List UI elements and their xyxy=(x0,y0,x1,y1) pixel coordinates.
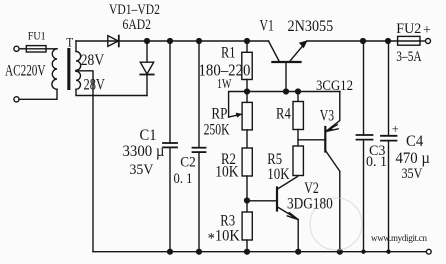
top rail right segment xyxy=(307,40,398,42)
resistor R5 xyxy=(293,146,303,176)
svg-text:FU2: FU2 xyxy=(396,21,421,38)
junction dot V3 collector bottom xyxy=(337,249,343,255)
svg-text:0. 1: 0. 1 xyxy=(174,171,193,187)
base bus wire xyxy=(247,91,340,93)
svg-text:V1: V1 xyxy=(260,17,274,34)
transistor V2 xyxy=(276,188,278,211)
junction dot C3 top xyxy=(360,38,366,44)
fuse FU1 xyxy=(26,46,46,52)
junction dot C4 top xyxy=(385,38,391,44)
svg-text:2N3055: 2N3055 xyxy=(288,19,334,36)
terminal AC input bottom xyxy=(14,97,19,102)
top rail left segment xyxy=(76,40,269,42)
junction dot VD2 top xyxy=(144,38,150,44)
svg-text:+: + xyxy=(423,23,431,38)
bottom rail xyxy=(93,251,426,253)
junction dot C1 top xyxy=(167,38,173,44)
svg-text:28V: 28V xyxy=(84,76,105,94)
svg-text:35V: 35V xyxy=(130,162,154,179)
svg-text:10K: 10K xyxy=(267,166,290,183)
svg-text:+: + xyxy=(392,122,399,136)
svg-text:R1: R1 xyxy=(221,44,235,62)
fuse FU2 xyxy=(398,36,420,45)
junction dot V2 emitter bottom xyxy=(295,249,301,255)
svg-text:28V: 28V xyxy=(81,52,105,69)
transformer secondary upper winding xyxy=(76,52,81,71)
terminal AC input top xyxy=(14,46,19,51)
junction dot C1 bottom xyxy=(167,249,173,255)
transformer secondary lower winding xyxy=(76,71,81,89)
svg-text:C1: C1 xyxy=(140,127,157,143)
resistor R4 xyxy=(297,92,299,102)
junction dot C3 bottom xyxy=(361,250,365,254)
wire secondary bottom xyxy=(76,89,147,95)
svg-text:C4: C4 xyxy=(406,134,424,150)
junction dot R4 top xyxy=(295,88,301,94)
resistor R3 xyxy=(242,212,252,240)
svg-text:FU1: FU1 xyxy=(28,30,46,43)
capacitor C2 xyxy=(198,41,200,148)
svg-text:1W: 1W xyxy=(217,75,232,91)
svg-text:V2: V2 xyxy=(304,180,319,197)
junction dot C2 top xyxy=(196,38,202,44)
svg-text:www.mydigit.cn: www.mydigit.cn xyxy=(371,233,428,243)
potentiometer RP xyxy=(229,92,247,118)
svg-text:10K: 10K xyxy=(215,164,239,181)
svg-text:AC220V: AC220V xyxy=(5,62,46,79)
capacitor C1 xyxy=(169,41,171,143)
junction dot C2 bottom xyxy=(196,249,202,255)
wire fuse FU2 to terminal xyxy=(420,40,425,42)
wire input bottom to primary xyxy=(19,89,57,99)
svg-text:C2: C2 xyxy=(180,154,195,171)
wire input top to fuse xyxy=(19,48,26,50)
svg-text:6AD2: 6AD2 xyxy=(123,16,151,33)
wire RP to R2 xyxy=(246,130,248,148)
capacitor C4 xyxy=(388,41,390,136)
svg-text:35V: 35V xyxy=(402,165,423,182)
transformer T primary winding xyxy=(52,49,57,90)
wire R3 to rail xyxy=(246,240,248,252)
svg-text:3300 µ: 3300 µ xyxy=(123,143,165,160)
svg-text:3DG180: 3DG180 xyxy=(287,196,333,213)
transistor V3 xyxy=(324,127,326,152)
resistor R1 xyxy=(246,41,248,52)
svg-text:0. 1: 0. 1 xyxy=(366,154,387,171)
svg-text:T: T xyxy=(66,35,73,50)
wire R4 to R5 xyxy=(297,130,299,147)
svg-text:3–5A: 3–5A xyxy=(396,47,422,64)
svg-text:3CG12: 3CG12 xyxy=(316,78,353,94)
junction dot V1 base xyxy=(283,88,289,94)
transistor V1 xyxy=(272,61,300,63)
junction dot C4 bottom xyxy=(386,250,390,254)
wire secondary top to rail xyxy=(75,41,77,52)
junction dot R1 bottom xyxy=(244,88,250,94)
wire center tap xyxy=(76,71,93,252)
svg-text:250K: 250K xyxy=(204,121,230,138)
svg-text:V3: V3 xyxy=(320,107,334,124)
transformer core xyxy=(67,48,70,90)
wire R2 to R3 xyxy=(246,176,248,212)
svg-text:R4: R4 xyxy=(276,105,291,123)
junction dot R1 top xyxy=(244,38,250,44)
capacitor C3 xyxy=(363,41,365,135)
diode VD1 xyxy=(108,36,119,47)
terminal output bottom xyxy=(426,249,431,254)
resistor R2 xyxy=(242,148,252,176)
terminal output plus xyxy=(426,39,431,44)
diode VD2 xyxy=(146,41,148,62)
watermark ring xyxy=(310,198,362,250)
junction dot V2 base tap xyxy=(244,197,250,203)
junction dot R3 bottom xyxy=(244,249,250,255)
wire fuse to primary xyxy=(46,48,57,50)
